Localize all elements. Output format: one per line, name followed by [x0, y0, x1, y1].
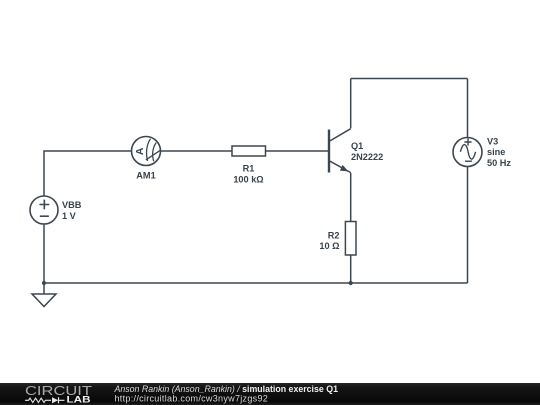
wire V3 top [467, 79, 469, 138]
source V3 [453, 138, 482, 167]
transistor Q1 emitter arrow [340, 165, 348, 172]
logo diode [52, 397, 58, 403]
ground [32, 294, 56, 307]
ammeter AM1 [132, 137, 161, 166]
wire emitter to R2 [350, 173, 352, 222]
transistor Q1 [329, 129, 351, 173]
logo resistor zigzag [25, 398, 51, 402]
resistor R1 [232, 146, 266, 156]
wire R2 to bottom rail [350, 255, 352, 283]
wire R1 to Q1 base [266, 150, 329, 152]
wire bottom rail [44, 282, 468, 284]
svg-text:Anson Rankin (Anson_Rankin) /: Anson Rankin (Anson_Rankin) / simulation… [114, 384, 339, 394]
node B (R2 / bottom rail junction) [349, 281, 353, 285]
wire top rail [351, 78, 468, 80]
wire V3 bottom [467, 167, 469, 284]
svg-text:LAB: LAB [67, 394, 91, 404]
wire VBB bottom to ground node [43, 224, 45, 283]
wire AM1 to R1 [161, 150, 233, 152]
wire ground stem [43, 283, 45, 294]
resistor R2 [345, 222, 356, 256]
svg-text:http://circuitlab.com/cw3nyw7j: http://circuitlab.com/cw3nyw7jzgs92 [115, 394, 269, 404]
wire VBB top to main rail [44, 151, 132, 196]
footer bar [0, 383, 540, 405]
wire collector vertical [350, 79, 352, 129]
voltage source VBB [30, 196, 58, 224]
node A (ground junction) [42, 281, 46, 285]
